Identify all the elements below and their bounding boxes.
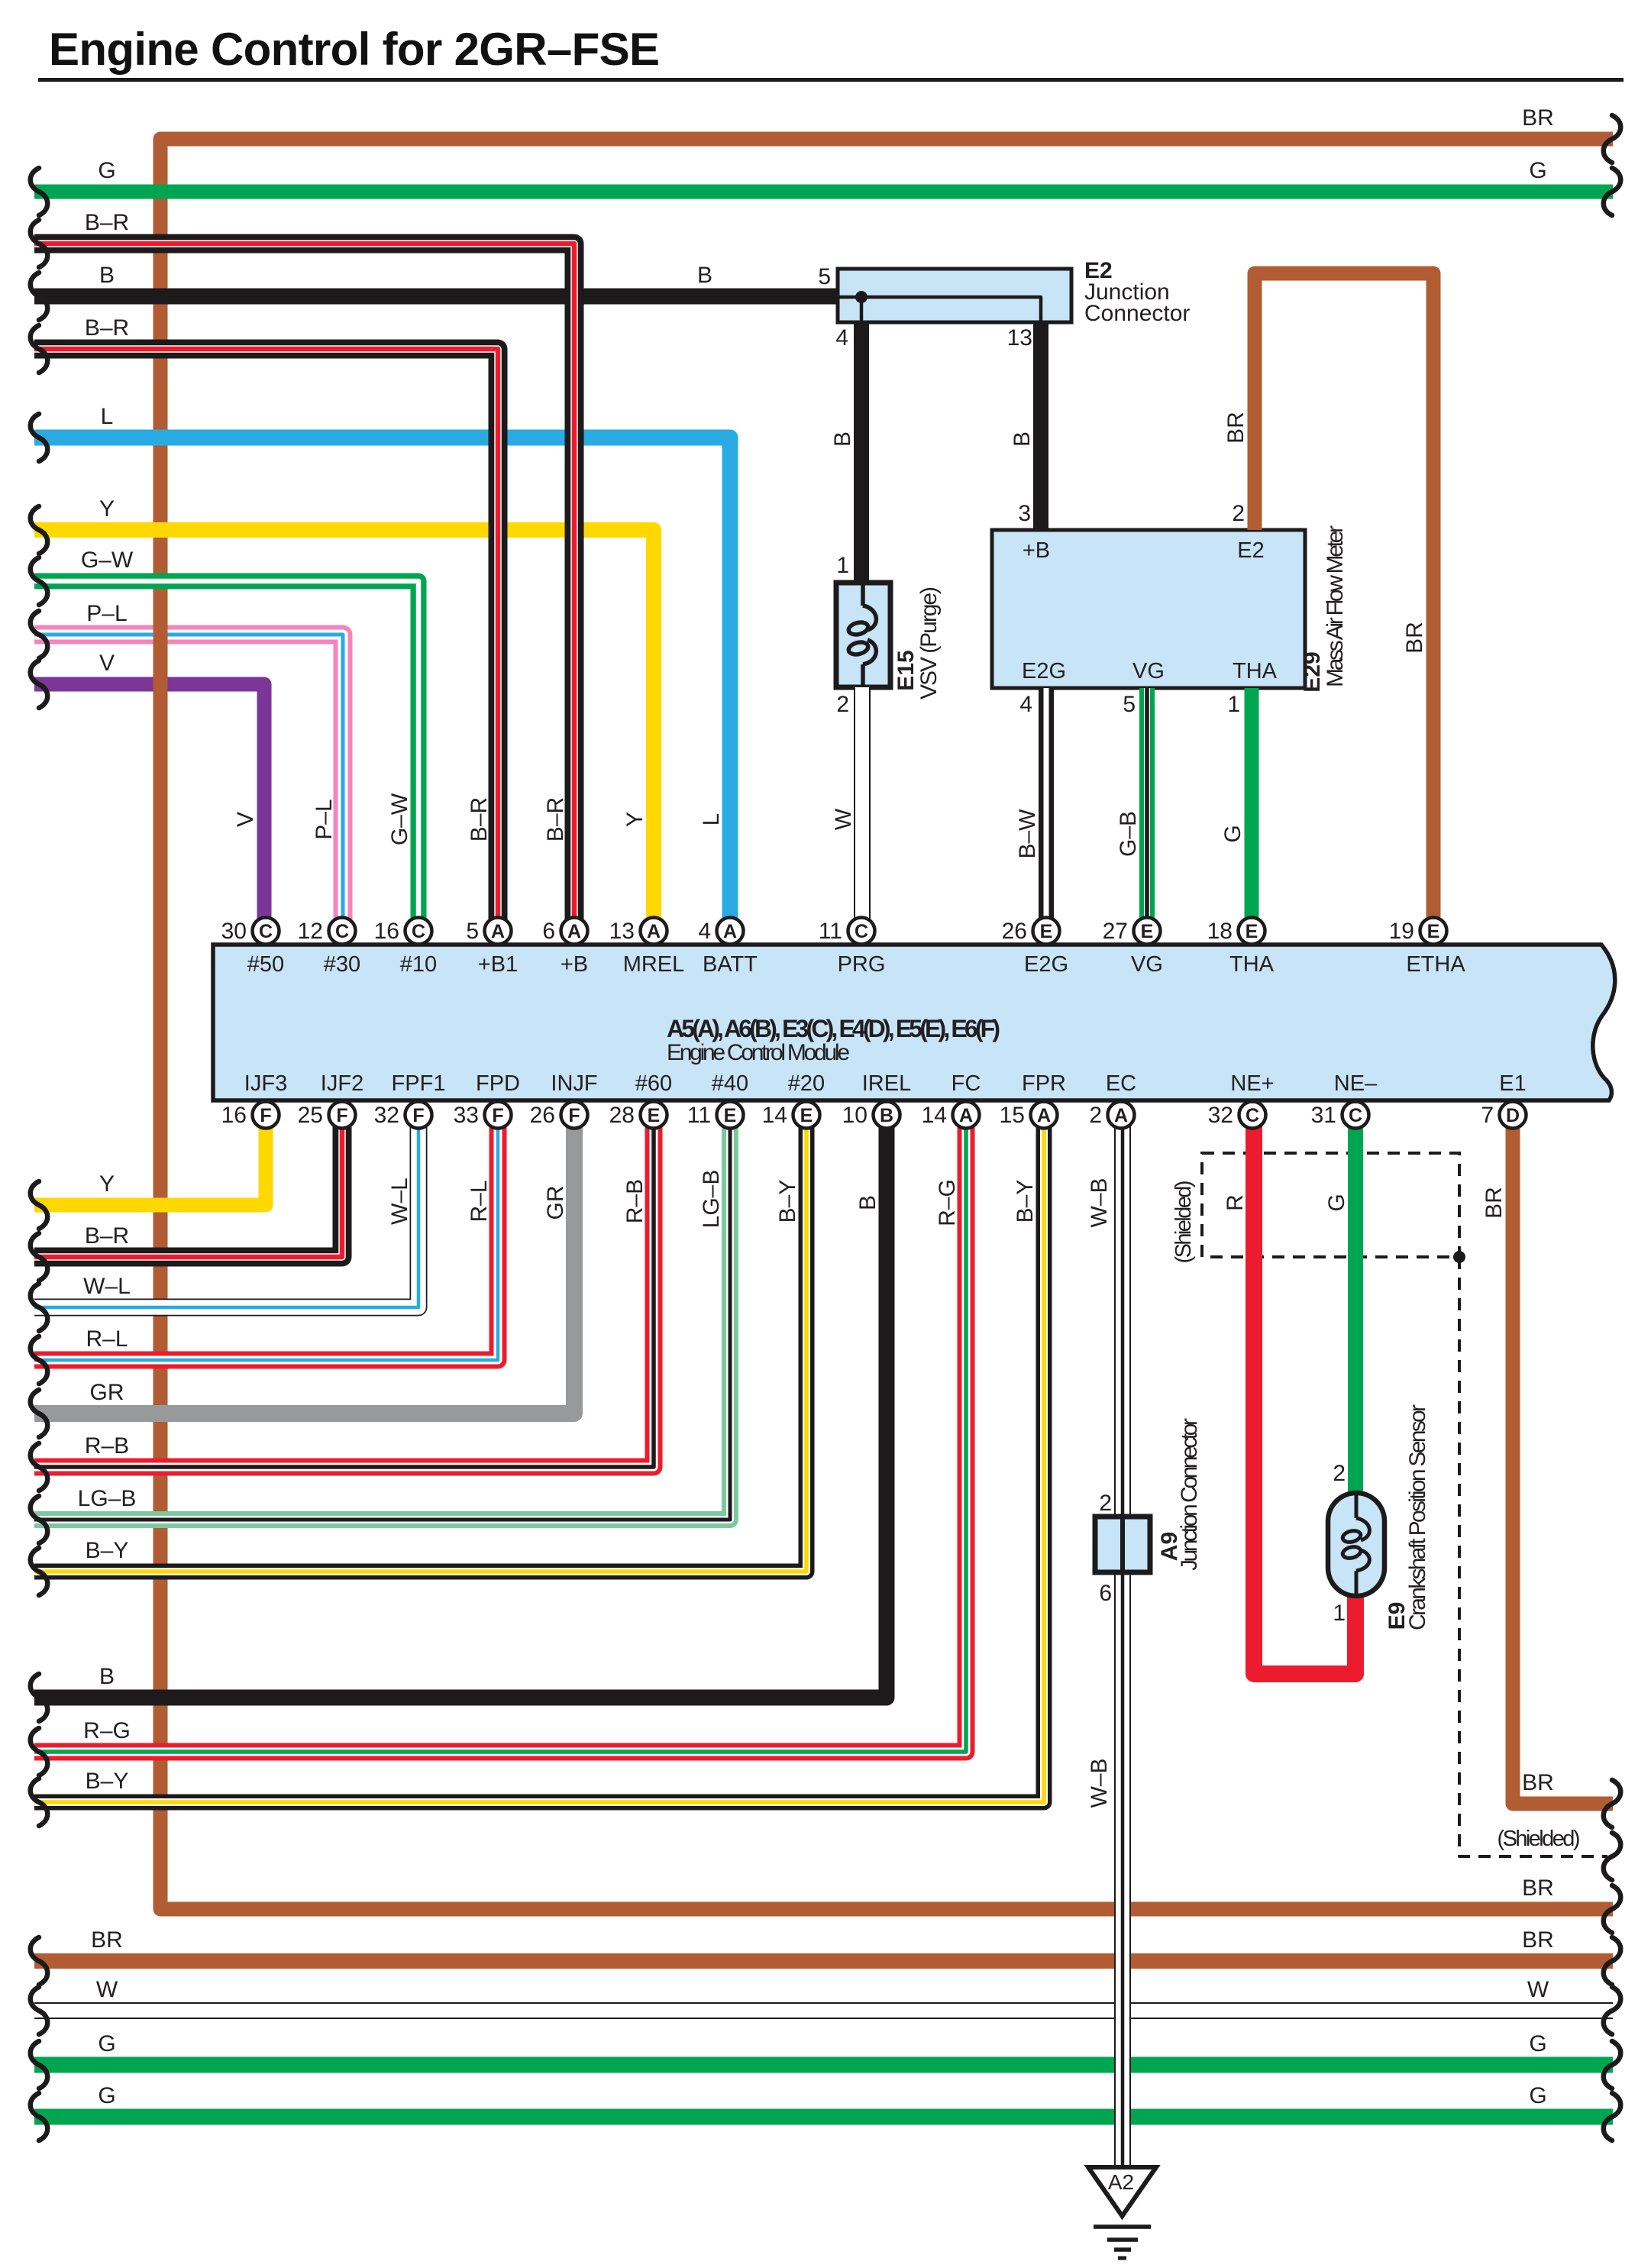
svg-text:THA: THA (1229, 952, 1275, 977)
svg-text:1: 1 (1227, 692, 1240, 717)
pin 25 F (298, 1102, 356, 1129)
svg-text:A: A (1037, 1105, 1051, 1126)
pin 31 C (1311, 1102, 1369, 1129)
svg-text:Engine Control for 2GR–FSE: Engine Control for 2GR–FSE (49, 24, 660, 75)
svg-text:6: 6 (542, 919, 555, 944)
svg-text:Y: Y (99, 496, 115, 522)
svg-text:31: 31 (1311, 1103, 1336, 1128)
pin 32 F (374, 1102, 432, 1129)
svg-text:2: 2 (1232, 501, 1245, 526)
wire V (to ECM pin C30 #50) (34, 684, 264, 931)
svg-text:16: 16 (221, 1103, 247, 1128)
svg-text:W: W (1527, 1977, 1549, 2002)
svg-text:A: A (723, 921, 737, 942)
wire B-W (E29 pin 4 E2G to ECM pin E26) (1039, 688, 1054, 931)
wire B (ECM pin B10 IREL) (34, 1115, 887, 1698)
E15 pin numbers 1,2 (836, 553, 849, 717)
svg-text:F: F (492, 1105, 503, 1126)
svg-text:W: W (831, 808, 856, 830)
svg-text:VG: VG (1131, 952, 1163, 977)
svg-text:1: 1 (1333, 1601, 1346, 1626)
svg-text:#40: #40 (712, 1071, 748, 1096)
svg-text:BR: BR (1223, 412, 1249, 444)
svg-text:2: 2 (836, 692, 849, 717)
svg-text:Y: Y (99, 1171, 115, 1197)
E29 pin numbers 3,2,4,5,1 (1018, 501, 1245, 717)
wire BR (ECM pin D7 E1) (1513, 1115, 1613, 1804)
wire continuation curls, left edge (31, 168, 48, 2140)
E9 labels (1384, 1404, 1430, 1630)
svg-text:1: 1 (836, 553, 849, 578)
svg-text:12: 12 (298, 919, 323, 944)
pin 11 E (687, 1102, 744, 1129)
svg-text:C: C (855, 921, 868, 942)
svg-text:E29: E29 (1300, 651, 1325, 692)
pin 18 E (1207, 918, 1265, 945)
svg-text:11: 11 (819, 919, 842, 944)
svg-text:+B1: +B1 (478, 952, 518, 977)
svg-text:F: F (568, 1105, 580, 1126)
svg-text:B: B (1010, 431, 1035, 447)
svg-text:MREL: MREL (623, 952, 685, 977)
svg-text:BR: BR (91, 1927, 123, 1953)
svg-text:W: W (96, 1977, 118, 2002)
pin 7 D (1481, 1102, 1526, 1129)
svg-text:#50: #50 (247, 952, 284, 977)
svg-text:A: A (491, 921, 505, 942)
ECM bottom pin name labels (244, 1071, 1527, 1096)
rotated wire labels below ECM (387, 1170, 1507, 1808)
svg-text:G–W: G–W (81, 548, 134, 573)
svg-text:E2: E2 (1237, 538, 1264, 563)
svg-text:19: 19 (1389, 919, 1414, 944)
svg-text:LG–B: LG–B (78, 1486, 137, 1511)
pin 10 B (842, 1102, 900, 1129)
svg-text:A: A (1114, 1105, 1128, 1126)
E29 labels (1022, 525, 1348, 693)
pin 16 F (221, 1102, 279, 1129)
svg-text:BR: BR (1522, 105, 1554, 131)
svg-text:7: 7 (1481, 1103, 1494, 1128)
svg-text:BR: BR (1481, 1187, 1507, 1219)
svg-text:B–R: B–R (85, 1223, 129, 1249)
junction connector E2 (838, 269, 1071, 322)
svg-text:Connector: Connector (1084, 301, 1190, 326)
wire name labels, left column (78, 158, 137, 2108)
svg-text:B–R: B–R (85, 210, 129, 235)
junction connector A9 (1095, 1514, 1150, 1575)
wire B (to E2 junction connector) (34, 289, 838, 305)
svg-text:W–B: W–B (1087, 1178, 1112, 1227)
shield labels (1171, 1181, 1581, 1852)
svg-text:G: G (98, 158, 115, 183)
svg-text:V: V (233, 812, 258, 827)
svg-text:W–L: W–L (83, 1274, 131, 1299)
svg-text:4: 4 (835, 325, 848, 351)
wire G (ECM pin C31 NE- to E9 pin 2) (1348, 1115, 1363, 1495)
svg-text:E1: E1 (1499, 1071, 1526, 1096)
ECM top pin name labels (247, 952, 1466, 977)
svg-text:13: 13 (1007, 325, 1032, 351)
svg-text:B–Y: B–Y (1013, 1180, 1038, 1223)
wire B-Y (ECM pin E14 #20) (34, 1115, 806, 1572)
E9 pin numbers 2,1 (1333, 1461, 1346, 1626)
svg-text:ETHA: ETHA (1406, 952, 1465, 977)
svg-text:G–W: G–W (387, 793, 412, 845)
svg-text:G: G (1529, 158, 1546, 183)
svg-text:Junction Connector: Junction Connector (1177, 1418, 1202, 1571)
wire G (bottom bus 1) (34, 2057, 1613, 2073)
svg-text:32: 32 (374, 1103, 399, 1128)
wire B-R (to ECM pin A6 +B) (34, 244, 574, 931)
wire shield drain (dashed) to bottom right (1459, 1257, 1607, 1856)
svg-text:26: 26 (1002, 919, 1027, 944)
svg-text:B–Y: B–Y (86, 1538, 129, 1563)
svg-text:E: E (800, 1105, 813, 1126)
svg-text:30: 30 (221, 919, 247, 944)
svg-text:PRG: PRG (838, 952, 886, 977)
svg-text:FPD: FPD (476, 1071, 520, 1096)
wire BR trunk (top right to bottom right) (160, 139, 1613, 1909)
svg-text:13: 13 (609, 919, 635, 944)
svg-text:A: A (567, 921, 581, 942)
svg-text:11: 11 (687, 1103, 711, 1128)
pin 4 A (698, 918, 743, 945)
svg-text:Mass Air Flow Meter: Mass Air Flow Meter (1323, 525, 1348, 687)
svg-text:4: 4 (1019, 692, 1032, 717)
wire G-W (to ECM pin C16 #10) (34, 581, 418, 931)
wire continuation curls, right edge (1604, 115, 1621, 2140)
wire W-B (ECM pin A2 EC to ground A2 via A9 pins 2/6) (1114, 1115, 1131, 2167)
svg-text:E2G: E2G (1022, 659, 1066, 683)
svg-text:THA: THA (1233, 659, 1278, 683)
svg-text:FPF1: FPF1 (392, 1071, 446, 1096)
svg-text:2: 2 (1333, 1461, 1346, 1486)
svg-text:E: E (648, 1105, 661, 1126)
wire G (E29 pin 1 THA to ECM pin E18) (1245, 688, 1259, 931)
svg-text:R–L: R–L (86, 1326, 128, 1352)
wire G-B (E29 pin 5 VG to ECM pin E27) (1139, 688, 1155, 931)
svg-text:B–R: B–R (467, 797, 492, 842)
pin 14 A (922, 1102, 980, 1129)
pin 16 C (374, 918, 432, 945)
svg-text:G: G (1529, 2083, 1546, 2108)
svg-text:F: F (336, 1105, 347, 1126)
svg-text:5: 5 (818, 264, 831, 289)
svg-text:28: 28 (609, 1103, 635, 1128)
svg-text:NE–: NE– (1334, 1071, 1378, 1096)
svg-text:26: 26 (530, 1103, 555, 1128)
label B and pin 5 at E2 connector (697, 263, 831, 289)
svg-text:B: B (830, 431, 855, 447)
E2 pin number labels 4 and 13 (835, 325, 1032, 351)
svg-text:27: 27 (1103, 919, 1128, 944)
svg-text:B–R: B–R (85, 315, 129, 341)
svg-text:IJF3: IJF3 (244, 1071, 287, 1096)
ground A2 (1088, 2167, 1156, 2258)
title (38, 24, 1624, 82)
svg-text:R: R (1223, 1194, 1248, 1211)
svg-text:33: 33 (454, 1103, 479, 1128)
svg-text:EC: EC (1106, 1071, 1136, 1096)
svg-text:A: A (959, 1105, 973, 1126)
wire W-L (ECM pin F32 FPF1) (34, 1115, 418, 1307)
svg-text:IJF2: IJF2 (321, 1071, 363, 1096)
svg-text:R–B: R–B (622, 1179, 648, 1223)
wire B-Y (ECM pin A15 FPR) (34, 1115, 1044, 1802)
wire G (bottom bus 2) (34, 2109, 1613, 2125)
svg-text:A: A (647, 921, 661, 942)
svg-text:G: G (1529, 2031, 1546, 2056)
svg-text:(Shielded): (Shielded) (1498, 1827, 1581, 1851)
svg-text:R–B: R–B (85, 1433, 129, 1459)
svg-text:C: C (1349, 1105, 1362, 1126)
svg-text:+B: +B (561, 952, 588, 977)
pin 11 C (819, 918, 875, 945)
rotated wire labels above ECM (233, 793, 1246, 858)
svg-text:GR: GR (543, 1186, 568, 1220)
svg-text:A2: A2 (1108, 2170, 1134, 2194)
wire B (E2 pin 13 to E29 pin 3 +B) (1033, 322, 1048, 530)
pin 6 A (542, 918, 587, 945)
svg-text:G: G (98, 2031, 115, 2056)
wire Y (ECM pin F16 IJF3) (34, 1115, 266, 1205)
wire R-G (ECM pin A14 FC) (34, 1115, 966, 1752)
svg-text:5: 5 (1123, 692, 1136, 717)
wire BR (E29 pin 2 E2 to ECM pin E19 ETHA) (1255, 273, 1433, 931)
svg-text:15: 15 (1000, 1103, 1025, 1128)
svg-text:VSV (Purge): VSV (Purge) (916, 586, 942, 699)
svg-text:F: F (260, 1105, 271, 1126)
wire B-R (ECM pin F25 IJF2) (34, 1115, 342, 1257)
wire B (E2 pin 4 to E15 pin 1) (854, 322, 869, 583)
pin 26 E (1002, 918, 1060, 945)
svg-text:B–W: B–W (1015, 809, 1040, 859)
svg-text:B–Y: B–Y (86, 1769, 129, 1794)
svg-text:L: L (699, 813, 724, 826)
wire R (ECM pin C32 NE+ to E9 pin 1) (1254, 1115, 1355, 1674)
shield box (Shielded) around NE wires (1202, 1153, 1459, 1257)
svg-text:C: C (412, 921, 425, 942)
svg-text:32: 32 (1208, 1103, 1233, 1128)
svg-text:25: 25 (298, 1103, 323, 1128)
wire L (to ECM pin A4 BATT) (34, 438, 730, 931)
pin 27 E (1103, 918, 1161, 945)
svg-text:BR: BR (1522, 1770, 1554, 1795)
svg-text:G–B: G–B (1116, 811, 1141, 857)
svg-text:B: B (697, 263, 712, 288)
svg-text:3: 3 (1018, 501, 1031, 526)
svg-text:(Shielded): (Shielded) (1171, 1181, 1196, 1264)
svg-text:E: E (1040, 921, 1053, 942)
wire R-B (ECM pin E28 #60) (34, 1115, 654, 1467)
svg-text:2: 2 (1089, 1103, 1102, 1128)
svg-text:IREL: IREL (862, 1071, 911, 1096)
svg-text:4: 4 (698, 919, 711, 944)
wire Y (to ECM pin A13 MREL) (34, 530, 654, 931)
pin 28 E (609, 1102, 667, 1129)
pin 14 E (762, 1102, 820, 1129)
svg-text:Y: Y (622, 812, 648, 827)
svg-text:E2G: E2G (1024, 952, 1068, 977)
crankshaft position sensor E9 (1328, 1493, 1384, 1596)
svg-text:INJF: INJF (551, 1071, 597, 1096)
svg-text:18: 18 (1207, 919, 1233, 944)
pin 12 C (298, 918, 356, 945)
svg-text:E: E (1246, 921, 1258, 942)
wire GR (ECM pin F26 INJF) (34, 1115, 574, 1413)
pin 2 A (1089, 1102, 1134, 1129)
svg-text:W–L: W–L (387, 1178, 412, 1225)
svg-text:E: E (1141, 921, 1154, 942)
svg-text:#20: #20 (788, 1071, 825, 1096)
A9 labels (1157, 1418, 1202, 1571)
svg-text:#10: #10 (400, 952, 437, 977)
wire B-R (to ECM pin A5 +B1) (34, 349, 498, 931)
svg-text:+B: +B (1023, 538, 1050, 563)
svg-text:Crankshaft Position Sensor: Crankshaft Position Sensor (1405, 1404, 1430, 1630)
svg-text:L: L (101, 404, 114, 429)
svg-text:G: G (98, 2083, 115, 2108)
svg-text:E15: E15 (893, 650, 919, 690)
svg-text:G: G (1220, 825, 1246, 842)
wire BR (bottom bus) (34, 1953, 1613, 1969)
node: shield junction dot (1453, 1251, 1465, 1263)
svg-text:C: C (1246, 1105, 1259, 1126)
svg-text:#30: #30 (324, 952, 360, 977)
svg-text:R–G: R–G (83, 1718, 131, 1743)
svg-text:B: B (99, 263, 115, 288)
svg-text:NE+: NE+ (1230, 1071, 1274, 1096)
svg-text:B: B (855, 1195, 880, 1210)
svg-text:5: 5 (466, 919, 479, 944)
svg-text:B–R: B–R (543, 797, 568, 842)
svg-text:BR: BR (1402, 622, 1427, 654)
svg-text:10: 10 (842, 1103, 868, 1128)
svg-text:BR: BR (1522, 1875, 1554, 1901)
svg-text:E: E (1427, 921, 1440, 942)
wire G (top) (34, 185, 1613, 199)
svg-text:14: 14 (762, 1103, 787, 1128)
pin 13 A (609, 918, 667, 945)
A9 pin numbers 2,6 (1099, 1491, 1112, 1606)
svg-text:C: C (335, 921, 349, 942)
svg-text:P–L: P–L (86, 601, 127, 626)
svg-text:FC: FC (952, 1071, 981, 1096)
svg-text:FPR: FPR (1022, 1071, 1066, 1096)
svg-text:BR: BR (1522, 1927, 1554, 1953)
svg-text:6: 6 (1099, 1581, 1112, 1606)
wire W (bottom bus) (34, 2002, 1613, 2019)
VSV (Purge) E15 (836, 583, 890, 687)
svg-text:VG: VG (1132, 659, 1165, 683)
svg-text:LG–B: LG–B (699, 1170, 724, 1229)
svg-text:C: C (259, 921, 273, 942)
svg-text:14: 14 (922, 1103, 947, 1128)
svg-text:GR: GR (90, 1380, 124, 1405)
svg-text:16: 16 (374, 919, 399, 944)
svg-text:W–B: W–B (1087, 1758, 1112, 1808)
wire LG-B (ECM pin E11 #40) (34, 1115, 730, 1520)
svg-text:V: V (99, 651, 115, 676)
svg-text:2: 2 (1099, 1491, 1112, 1516)
wire name labels, right column (1522, 105, 1554, 2108)
pin 15 A (1000, 1102, 1058, 1129)
E2 labels (1084, 258, 1190, 326)
pin 30 C (221, 918, 279, 945)
wire R-L (ECM pin F33 FPD) (34, 1115, 498, 1360)
svg-text:B–Y: B–Y (775, 1180, 800, 1223)
svg-text:R–G: R–G (935, 1179, 960, 1226)
svg-text:B: B (880, 1105, 893, 1126)
svg-text:#60: #60 (635, 1071, 672, 1096)
svg-text:G: G (1324, 1194, 1349, 1211)
svg-text:B: B (99, 1664, 115, 1689)
wire P-L (to ECM pin C12 #30) (34, 635, 343, 931)
pin 5 A (466, 918, 511, 945)
svg-text:Engine Control Module: Engine Control Module (667, 1040, 850, 1065)
svg-text:D: D (1506, 1105, 1520, 1126)
pin 33 F (454, 1102, 512, 1129)
pin 19 E (1389, 918, 1447, 945)
svg-text:R–L: R–L (467, 1180, 492, 1222)
svg-text:F: F (412, 1105, 424, 1126)
rotated labels B/BR between E2,E15,E29 (830, 412, 1427, 654)
node: E2 internal junction dot (855, 291, 868, 303)
engine control module ECM A5/A6/E3/E4/E5/E6 (213, 945, 1615, 1100)
svg-text:BATT: BATT (703, 952, 758, 977)
wire W (E15 pin 2 to ECM pin C11 PRG) (854, 687, 871, 931)
E15 labels (893, 586, 942, 699)
Mass Air Flow Meter E29 (992, 530, 1305, 688)
svg-text:P–L: P–L (312, 799, 337, 839)
pin 26 F (530, 1102, 588, 1129)
svg-text:E: E (724, 1105, 737, 1126)
pin 32 C (1208, 1102, 1266, 1129)
svg-text:A5(A), A6(B), E3(C), E4(D), E5: A5(A), A6(B), E3(C), E4(D), E5(E), E6(F) (667, 1015, 1000, 1042)
